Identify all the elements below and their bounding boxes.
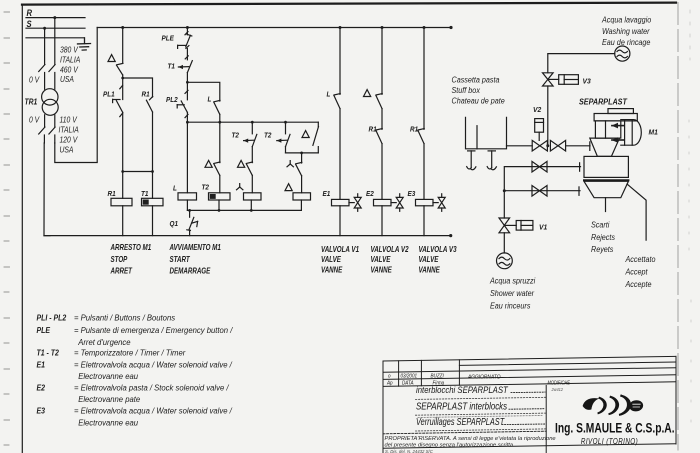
svg-text:V1: V1 — [539, 223, 547, 231]
separplast feed hat — [594, 114, 637, 121]
svg-text:TR1: TR1 — [25, 97, 38, 107]
node rail2 T2 — [218, 209, 221, 212]
node pasta junction — [546, 144, 549, 147]
wire right secondary drop — [54, 115, 56, 127]
node subrail — [300, 152, 303, 155]
wire star coil to rail2 — [250, 200, 252, 210]
wire to star coil — [251, 175, 253, 192]
svg-text:USA: USA — [60, 145, 74, 155]
pipe washing water — [548, 54, 615, 73]
wire to coil R1 — [122, 172, 124, 199]
contact terminal tick — [185, 32, 188, 35]
valve symbol E2 — [391, 194, 403, 212]
vessel shoulder — [590, 138, 620, 156]
svg-text:L: L — [173, 185, 177, 193]
contact R1 seal-in — [146, 97, 152, 113]
drive arrow upper — [612, 123, 625, 129]
svg-text:460 V: 460 V — [60, 65, 79, 75]
svg-text:E3: E3 — [408, 191, 416, 199]
company name — [555, 420, 674, 446]
title block left edge — [382, 361, 384, 453]
wire coil R1 to bus — [122, 206, 124, 236]
contact star aux (delta branch) — [296, 162, 302, 175]
flange tick shower2 — [578, 187, 580, 195]
pipe V1 down — [503, 233, 505, 253]
node rejoin right — [151, 170, 154, 173]
valve shower2 — [532, 186, 547, 197]
svg-text:R1: R1 — [142, 91, 150, 99]
coil delta contactor — [293, 193, 311, 200]
wire delta coil to rail2 — [300, 200, 302, 210]
wire subrail drop — [301, 153, 303, 163]
logo maule shells — [582, 396, 644, 415]
rail2 coil return — [187, 209, 301, 211]
svg-text:o: o — [388, 373, 391, 379]
contact delta parallel — [313, 122, 319, 153]
wire PLE upper — [186, 28, 188, 35]
svg-text:Accettato: Accettato — [625, 255, 656, 264]
svg-text:= Elettrovalvola acqua / Water: = Elettrovalvola acqua / Water solenoid … — [74, 406, 233, 415]
svg-text:Electrovanne eau: Electrovanne eau — [78, 372, 138, 381]
legend text — [37, 313, 234, 428]
svg-text:VALVOLA V2: VALVOLA V2 — [371, 245, 409, 254]
coil T1 (timer) — [142, 198, 164, 206]
label valvola V2 — [371, 245, 409, 274]
contact R1 (E2 rung) — [376, 129, 382, 144]
wire PL1 lower — [122, 112, 124, 171]
node rung1 top — [121, 26, 124, 29]
wire E3 coil to bus — [423, 206, 425, 236]
svg-text:T1: T1 — [141, 190, 149, 198]
wire T1 to node — [186, 73, 188, 83]
subrail delta parallel — [286, 152, 319, 154]
node ladder E2 top — [381, 26, 384, 29]
svg-text:M1: M1 — [649, 128, 658, 136]
flange tick pasta — [589, 142, 591, 151]
valve check pasta — [550, 140, 565, 151]
contact delta aux (star branch) — [246, 162, 252, 175]
svg-text:S. Dis. del. N. 24432 S/C: S. Dis. del. N. 24432 S/C — [385, 449, 433, 453]
contact T2 timer (star) — [243, 134, 256, 146]
contact T2 timer (delta) — [277, 134, 290, 146]
delta mark (above delta coil) — [285, 184, 292, 191]
wire left primary drop — [44, 28, 46, 64]
wire deltabranch drop1 — [285, 122, 287, 134]
delta mark (parallel contact) — [302, 131, 309, 138]
wire T2branch drop — [219, 122, 221, 162]
svg-text:E2: E2 — [37, 383, 46, 393]
transformer TR1 primary winding — [42, 89, 58, 105]
wire coil T1 to bus — [152, 206, 154, 236]
coil L — [178, 193, 197, 200]
svg-text:R1: R1 — [108, 190, 116, 198]
svg-text:PL2: PL2 — [166, 97, 178, 105]
contact Q1a blade — [117, 63, 123, 78]
node rail starY top — [251, 121, 254, 124]
revision table rule 3 — [383, 375, 676, 380]
label valvola V1 — [321, 245, 359, 274]
node rung1 split — [121, 77, 124, 80]
wire tee to L contact — [187, 82, 219, 101]
contact L starter — [214, 100, 220, 114]
coil R1 — [111, 198, 132, 206]
motor shaft lines — [625, 120, 633, 146]
svg-text:= Pulsante di emergenza / Emer: = Pulsante di emergenza / Emergency butt… — [74, 326, 233, 335]
revision table rule 1 — [459, 362, 676, 365]
pipe pasta to vessel — [566, 145, 590, 147]
tank leg left — [467, 151, 476, 170]
pipe shower lower — [504, 190, 580, 192]
separplast hat cap — [608, 109, 633, 114]
actuator V3 — [548, 75, 579, 85]
node rung2 rail left — [186, 121, 189, 124]
svg-text:Ing. S.MAULE & C.S.p.A.: Ing. S.MAULE & C.S.p.A. — [555, 420, 674, 436]
bottom strip remnants — [385, 449, 433, 453]
svg-text:T2: T2 — [264, 132, 272, 140]
valve V3 — [543, 73, 554, 86]
pushbutton PL1 — [113, 99, 123, 116]
svg-text:Eau de rincage: Eau de rincage — [602, 38, 650, 47]
svg-text:Reyets: Reyets — [591, 245, 614, 254]
wire split to R1 branch — [123, 78, 153, 97]
wire R1 branch lower — [152, 112, 154, 172]
label cassetta pasta — [452, 75, 505, 105]
svg-text:L: L — [327, 91, 331, 99]
svg-text:T2: T2 — [202, 184, 210, 192]
svg-text:= Elettrovalvola pasta / Stock: = Elettrovalvola pasta / Stock solenoid … — [74, 383, 229, 392]
node L-branch tee — [186, 81, 189, 84]
coil E2 — [374, 199, 392, 205]
svg-text:110 V: 110 V — [60, 115, 78, 125]
stuff box tank — [466, 117, 507, 149]
node rail2 Q1 — [188, 209, 191, 212]
svg-text:Chateau de pate: Chateau de pate — [452, 96, 505, 105]
title block top edge — [383, 356, 676, 361]
svg-text:0 V: 0 V — [29, 115, 40, 125]
svg-text:Electrovanne pate: Electrovanne pate — [78, 395, 141, 404]
node rail2 star — [250, 209, 253, 212]
svg-text:ARRET: ARRET — [110, 267, 133, 276]
svg-text:PLE: PLE — [37, 325, 51, 335]
svg-text:VALVE: VALVE — [321, 255, 341, 264]
contact Q1 overload — [187, 210, 198, 235]
ground — [78, 38, 91, 50]
svg-text:MODIFICHE: MODIFICHE — [548, 380, 571, 386]
svg-text:S: S — [27, 18, 32, 29]
pushbutton PL2 — [177, 101, 188, 118]
node rejoin left — [121, 170, 124, 173]
svg-text:Acqua lavaggio: Acqua lavaggio — [601, 15, 651, 24]
label scarti — [591, 220, 615, 254]
node R-tap — [53, 16, 56, 19]
wire E2 rung mid2 — [381, 144, 383, 200]
actuator V1 — [504, 221, 533, 231]
svg-text:PLI - PL2: PLI - PL2 — [37, 313, 67, 323]
svg-text:2w412: 2w412 — [551, 387, 564, 392]
svg-text:PL1: PL1 — [103, 91, 115, 99]
wire PL2 upper — [186, 82, 188, 100]
svg-text:V3: V3 — [583, 77, 591, 85]
svg-text:Verruillages SEPARPLAST: Verruillages SEPARPLAST — [416, 416, 505, 427]
proprieta text — [385, 436, 556, 448]
svg-text:VALVOLA V1: VALVOLA V1 — [321, 245, 359, 254]
svg-text:E1: E1 — [323, 191, 331, 199]
svg-text:VANNE: VANNE — [419, 266, 441, 275]
contact L (E1 rung) — [334, 94, 340, 109]
wire PL1 upper — [122, 78, 124, 100]
svg-text:Stuff box: Stuff box — [452, 86, 482, 95]
svg-text:VALVE: VALVE — [419, 255, 439, 264]
top control bus — [97, 27, 451, 29]
shower water source — [497, 253, 513, 269]
svg-text:PLE: PLE — [162, 35, 175, 43]
node shower tee — [503, 189, 506, 192]
contact delta aux (T2 branch) — [214, 162, 220, 175]
pipe pasta — [507, 145, 533, 147]
svg-text:R: R — [27, 8, 33, 19]
svg-text:VALVE: VALVE — [371, 255, 391, 264]
node ladder E3 top — [423, 26, 426, 29]
contact R1 (E3 rung) — [418, 129, 424, 144]
delta mark (star branch) — [238, 160, 245, 167]
label accettato — [625, 255, 656, 289]
svg-text:ARRESTO M1: ARRESTO M1 — [110, 243, 152, 252]
svg-text:del presente disegno senza l'a: del presente disegno senza l'autorizzazi… — [385, 443, 514, 449]
actuator V2 cylinder — [535, 119, 544, 141]
wire E1 rung upper — [339, 28, 341, 95]
separplast neck box — [595, 121, 620, 138]
svg-text:Shower water: Shower water — [490, 289, 534, 298]
wire secondary left to bottom bus — [44, 143, 50, 236]
wire rung1 drop — [122, 28, 124, 64]
svg-text:= Pulsanti / Buttons / Boutons: = Pulsanti / Buttons / Boutons — [74, 313, 175, 322]
svg-text:USA: USA — [60, 74, 74, 84]
svg-text:SEPARPLAST interblocks: SEPARPLAST interblocks — [416, 400, 507, 411]
svg-text:V2: V2 — [533, 106, 541, 114]
wire to T2 coil — [219, 175, 221, 192]
switch secondary left pole — [39, 127, 45, 143]
revision table text — [386, 373, 571, 392]
svg-text:L: L — [208, 96, 212, 104]
contact T1 timer NC — [178, 56, 192, 73]
svg-text:Washing water: Washing water — [602, 27, 650, 36]
svg-text:Arret d'urgence: Arret d'urgence — [77, 338, 131, 347]
switch primary right pole — [49, 65, 55, 90]
svg-text:T1 - T2: T1 - T2 — [37, 348, 60, 358]
svg-text:Ap: Ap — [386, 380, 393, 386]
contact delta (E2 rung) — [376, 94, 382, 109]
wire secondary right to top bus — [55, 28, 97, 163]
svg-text:SEPARPLAST: SEPARPLAST — [579, 97, 628, 106]
page edge artifacts — [689, 10, 691, 440]
svg-text:STOP: STOP — [111, 255, 128, 264]
motor M1 body — [621, 120, 642, 146]
node S-tap — [43, 27, 46, 30]
svg-text:AVVIAMENTO M1: AVVIAMENTO M1 — [169, 243, 221, 252]
wire starY drop1 — [251, 122, 253, 134]
svg-text:Q1: Q1 — [170, 221, 179, 229]
node top bus end — [449, 26, 452, 29]
wire L contact to rail — [219, 114, 221, 122]
svg-text:Eau rinceurs: Eau rinceurs — [490, 301, 531, 310]
vessel cone — [584, 181, 628, 197]
pipe V3 down — [547, 86, 549, 146]
svg-text:T2: T2 — [232, 132, 240, 140]
wire deltabranch drop2 — [285, 147, 287, 153]
wire to coil T1 — [152, 172, 154, 199]
title block right edge — [675, 356, 677, 444]
margin ruler ticks — [4, 12, 10, 445]
valve shower1 — [532, 161, 547, 172]
rail rung2 — [187, 121, 318, 123]
label arresto — [110, 243, 152, 275]
star mark (above coil) — [237, 184, 243, 190]
valve V2 — [532, 140, 547, 151]
node bottom bus end — [449, 234, 452, 237]
wire L coil to rail2 — [186, 200, 188, 210]
wire E3 rung mid — [423, 144, 425, 200]
earth rail — [26, 37, 84, 39]
node ladder E1 top — [339, 26, 342, 29]
title rows separators — [416, 397, 547, 431]
node rung2 top — [186, 26, 189, 29]
svg-text:AGGIORNATO: AGGIORNATO — [467, 374, 500, 380]
wire starY drop2 — [251, 147, 253, 163]
revision table rule 4 — [383, 382, 676, 387]
svg-text:DATA: DATA — [402, 380, 414, 386]
outlet scarti — [605, 198, 607, 212]
svg-text:R1: R1 — [410, 126, 418, 134]
svg-text:DEMARRAGE: DEMARRAGE — [170, 267, 211, 276]
revision col divider 2 — [420, 360, 422, 385]
svg-text:Cassetta pasta: Cassetta pasta — [452, 75, 500, 84]
emergency pushbutton PLE — [178, 34, 192, 48]
label acqua lavaggio — [601, 15, 651, 47]
valve V1 — [499, 218, 510, 233]
svg-text:RIVOLI (TORINO): RIVOLI (TORINO) — [581, 436, 638, 446]
wire E1 coil to bus — [339, 206, 341, 236]
switch primary left pole — [39, 65, 45, 90]
wire PL2 lower — [186, 112, 188, 122]
svg-text:= Temporizzatore / Timer / Tim: = Temporizzatore / Timer / Timer — [74, 348, 186, 357]
valve symbol E1 — [349, 194, 361, 212]
star mark (delta branch) — [287, 161, 293, 167]
phase rail R — [26, 17, 85, 19]
drawing titles — [416, 384, 508, 427]
delta mark contact Q1a — [108, 55, 115, 62]
revision table rule 2 — [383, 368, 676, 373]
label avviamento — [169, 243, 221, 275]
node rail deltabranch top — [284, 121, 287, 124]
bottom control bus — [44, 235, 451, 237]
svg-text:120 V: 120 V — [60, 135, 79, 145]
svg-text:Accepte: Accepte — [625, 280, 652, 289]
coil E1 — [332, 199, 350, 205]
border frame right (faint) — [677, 3, 679, 451]
svg-text:VANNE: VANNE — [371, 266, 393, 275]
outlet accept — [627, 184, 646, 240]
coil T2 (timer) — [209, 193, 231, 200]
title leader dots — [502, 392, 545, 425]
svg-text:BUZZI: BUZZI — [431, 373, 445, 379]
svg-text:interblocchi SEPARPLAST: interblocchi SEPARPLAST — [416, 384, 508, 395]
wire PLE to T1 — [186, 49, 188, 60]
coil star contactor — [244, 193, 262, 200]
svg-text:E3: E3 — [37, 406, 46, 416]
pipe shower upper — [504, 167, 580, 191]
svg-text:Accept: Accept — [625, 267, 649, 276]
svg-text:03/2001: 03/2001 — [401, 373, 418, 379]
wire L coil drop — [186, 122, 188, 193]
label acqua spruzzi — [489, 276, 535, 310]
wire rung1 rejoin — [123, 171, 153, 173]
svg-text:VALVOLA V3: VALVOLA V3 — [419, 245, 457, 254]
vessel band — [584, 179, 628, 181]
wire E3 rung upper — [423, 28, 425, 130]
switch secondary right pole — [49, 127, 55, 143]
revision col divider 1 — [398, 361, 400, 386]
tank leg right — [487, 151, 496, 170]
svg-text:Scarti: Scarti — [591, 220, 610, 229]
wire E2 rung upper — [381, 28, 383, 95]
svg-text:E2: E2 — [366, 191, 374, 199]
transformer TR1 secondary winding — [42, 99, 58, 115]
svg-text:Rejects: Rejects — [591, 233, 615, 242]
border frame top — [22, 3, 676, 5]
wire E1 rung mid — [339, 109, 341, 200]
wire right primary drop — [54, 18, 56, 65]
vessel drum — [584, 156, 628, 177]
svg-text:Electrovanne eau: Electrovanne eau — [78, 418, 138, 427]
svg-text:T1: T1 — [168, 63, 176, 71]
valve symbol E3 — [433, 194, 445, 212]
svg-text:ITALIA: ITALIA — [60, 55, 80, 65]
contact terminal tick — [120, 86, 123, 89]
node rail T2branch — [218, 121, 221, 124]
svg-text:Acqua spruzzi: Acqua spruzzi — [489, 276, 535, 285]
washing water source — [615, 46, 630, 61]
svg-text:PROPRIETA'RISERVATA. A sensi: PROPRIETA'RISERVATA. A sensi di legge e'… — [385, 436, 556, 442]
svg-text:ITALIA: ITALIA — [59, 125, 79, 135]
svg-text:VANNE: VANNE — [321, 266, 343, 275]
flange tick shower1 — [579, 163, 581, 171]
svg-text:380 V: 380 V — [60, 45, 79, 55]
proprieta box top — [383, 431, 546, 434]
revision col divider 3 — [458, 360, 460, 385]
contact terminal tick — [185, 90, 188, 93]
pipe to V1 — [503, 191, 505, 218]
wire E2 coil to bus — [381, 206, 383, 236]
svg-text:E1: E1 — [37, 360, 46, 370]
border frame left — [21, 5, 23, 453]
delta mark (T2 branch) — [205, 160, 212, 167]
wire left secondary drop — [44, 115, 46, 127]
coil E3 — [416, 199, 434, 205]
svg-text:0 V: 0 V — [29, 75, 40, 85]
phase rail S — [26, 27, 85, 29]
title block bottom rule — [383, 444, 676, 449]
svg-text:= Elettrovalvola acqua / Water: = Elettrovalvola acqua / Water solenoid … — [74, 360, 233, 369]
svg-text:START: START — [170, 255, 191, 264]
wire E2 rung mid1 — [381, 109, 383, 130]
svg-text:R1: R1 — [369, 126, 377, 134]
label valvola V3 — [419, 245, 457, 274]
delta mark contact (E2 rung) — [364, 90, 371, 97]
wire T2 coil to rail2 — [218, 200, 220, 210]
drive arrow lower — [612, 137, 625, 143]
logo box divider — [545, 385, 547, 453]
wire to delta coil — [301, 176, 303, 193]
